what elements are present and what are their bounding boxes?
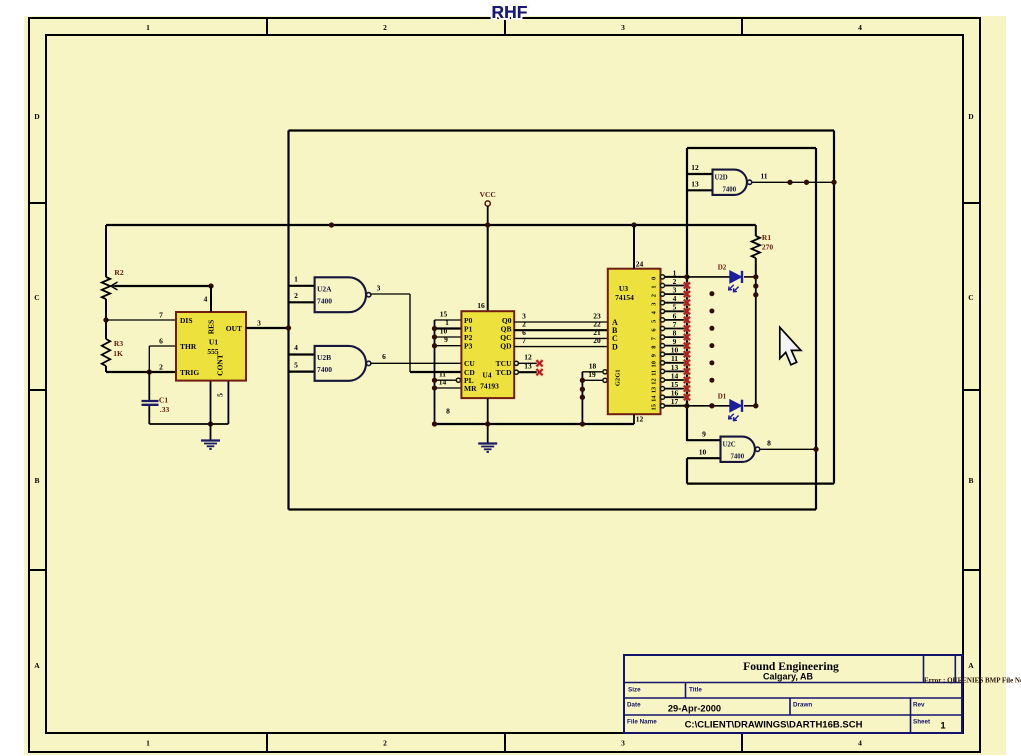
wire pin16 vertical: [487, 225, 489, 311]
svg-text:8: 8: [651, 345, 658, 348]
nand gate U2B: [315, 346, 366, 381]
svg-text:OUT: OUT: [226, 324, 242, 333]
svg-text:TCU: TCU: [496, 359, 512, 368]
svg-text:555: 555: [207, 347, 219, 356]
wire P1 pin1: [435, 327, 462, 329]
wire U2B input pin5: [289, 371, 315, 373]
decoder U3 74154 body: [608, 269, 661, 415]
wire U2C input pin10: [687, 457, 721, 459]
no-connect X TCU: [536, 360, 542, 366]
svg-text:29-Apr-2000: 29-Apr-2000: [668, 704, 721, 714]
svg-text:R1: R1: [762, 233, 771, 242]
svg-text:D: D: [968, 112, 974, 121]
svg-text:14: 14: [651, 395, 658, 402]
svg-text:C: C: [34, 293, 39, 302]
svg-text:Sheet: Sheet: [913, 719, 931, 726]
svg-text:3: 3: [621, 739, 625, 748]
svg-text:4: 4: [294, 343, 298, 352]
svg-text:1: 1: [146, 23, 150, 32]
svg-text:.33: .33: [160, 405, 170, 414]
svg-text:Date: Date: [627, 702, 641, 709]
svg-text:P2: P2: [464, 333, 473, 342]
svg-text:5: 5: [216, 393, 225, 397]
svg-text:D: D: [34, 112, 40, 121]
wire LED column vertical: [755, 277, 757, 406]
resistor R3: [102, 339, 110, 366]
svg-text:2: 2: [383, 23, 387, 32]
wire feedback bottom horizontal: [687, 483, 834, 485]
zone ticks bottom: [266, 733, 268, 752]
wire QC to C: [514, 337, 608, 339]
svg-text:RES: RES: [207, 320, 216, 335]
svg-text:8: 8: [446, 407, 450, 416]
mouse cursor: [780, 327, 801, 365]
wire P0 pin15: [435, 319, 462, 321]
svg-text:D: D: [612, 342, 618, 351]
nand gate U2C: [721, 437, 755, 462]
no-connect X marks U3 outputs: [684, 282, 690, 288]
svg-text:G2: G2: [615, 378, 622, 386]
svg-text:C: C: [968, 293, 973, 302]
svg-text:3: 3: [377, 284, 381, 293]
wire U2B input pin4: [289, 353, 315, 355]
wire THR pin6: [149, 345, 176, 347]
nand gate U2A: [315, 277, 366, 312]
svg-text:4: 4: [858, 23, 862, 32]
wire U2C input pin9: [687, 439, 721, 441]
svg-text:5: 5: [651, 320, 658, 323]
svg-text:4: 4: [204, 295, 208, 304]
svg-text:20: 20: [593, 336, 601, 345]
wire U3 pin24 vcc: [633, 225, 635, 269]
node R2 wiper junction: [208, 283, 213, 288]
svg-text:13: 13: [524, 362, 532, 371]
wire TRIG to C1: [148, 372, 150, 400]
svg-text:U2B: U2B: [317, 353, 331, 362]
svg-text:Rev: Rev: [913, 702, 925, 709]
svg-text:QC: QC: [500, 333, 511, 342]
svg-text:U2C: U2C: [723, 441, 736, 448]
svg-text:0: 0: [651, 277, 658, 280]
wire U2A output net 3: [371, 293, 410, 295]
svg-text:C1: C1: [159, 396, 168, 405]
svg-text:16: 16: [477, 301, 485, 310]
wire Q0 to A: [514, 321, 608, 323]
ground symbol U4: [478, 442, 497, 444]
svg-text:10: 10: [699, 448, 707, 457]
wire U2A input pin2: [289, 301, 315, 303]
svg-text:P3: P3: [464, 342, 473, 351]
svg-text:QD: QD: [500, 342, 512, 351]
wire gnd rail: [435, 423, 635, 425]
svg-text:1: 1: [940, 721, 946, 732]
ellipsis dots between LEDs: [709, 291, 714, 296]
svg-text:1: 1: [651, 285, 658, 288]
U4 PL bubble: [456, 378, 460, 382]
node U3 pin1 junction: [684, 274, 689, 279]
svg-text:11: 11: [760, 172, 767, 181]
wire R2 to RES pin4: [115, 285, 211, 287]
svg-text:6: 6: [159, 337, 163, 346]
svg-text:7: 7: [522, 336, 526, 345]
svg-text:VCC: VCC: [480, 190, 496, 199]
wire big loop top: [289, 129, 835, 131]
svg-text:U3: U3: [619, 284, 628, 293]
wire U2D input pin12: [687, 173, 713, 175]
svg-text:7400: 7400: [317, 365, 332, 374]
svg-text:7400: 7400: [731, 453, 745, 460]
svg-text:THR: THR: [180, 342, 197, 351]
wire R3 to TRIG: [105, 366, 107, 372]
wire U2C output net 8: [761, 448, 817, 450]
svg-text:Title: Title: [689, 687, 702, 694]
svg-text:CU: CU: [464, 359, 475, 368]
node D1 junction: [753, 403, 758, 408]
node D2 junctions: [753, 274, 758, 279]
title block small box: [923, 655, 925, 683]
svg-text:3: 3: [257, 319, 261, 328]
node U3 pin17 junction: [684, 403, 689, 408]
svg-text:C:\CLIENT\DRAWINGS\DARTH16B.SC: C:\CLIENT\DRAWINGS\DARTH16B.SCH: [685, 720, 863, 731]
wire inner top horizontal: [687, 147, 816, 149]
svg-text:2: 2: [294, 291, 298, 300]
LED D2: [730, 271, 742, 283]
node net11 junctions: [787, 180, 792, 185]
zone ticks right: [963, 202, 980, 204]
wire C1 bottom: [148, 406, 150, 424]
svg-text:2: 2: [383, 739, 387, 748]
svg-text:CONT: CONT: [216, 354, 225, 376]
svg-text:U2A: U2A: [317, 285, 332, 294]
svg-text:7: 7: [159, 311, 163, 320]
wire TCD pin13: [514, 370, 518, 374]
title block frame: [624, 655, 962, 733]
U3 output pins: [651, 268, 687, 280]
svg-text:11: 11: [651, 370, 658, 376]
ground symbol 555: [201, 439, 220, 441]
svg-text:2: 2: [651, 294, 658, 297]
wire OUT pin3: [246, 327, 289, 329]
svg-text:R2: R2: [114, 268, 123, 277]
svg-text:B: B: [34, 476, 39, 485]
svg-text:12: 12: [691, 163, 699, 172]
svg-text:R3: R3: [114, 339, 123, 348]
svg-text:9: 9: [651, 354, 658, 357]
timer U1 555 body: [176, 312, 246, 381]
svg-text:MR: MR: [464, 384, 477, 393]
svg-text:4: 4: [858, 739, 862, 748]
counter U4 74193 body: [461, 311, 514, 398]
node net8 junction: [813, 447, 818, 452]
VCC power symbol: [485, 201, 490, 206]
svg-text:7400: 7400: [723, 186, 737, 193]
svg-text:A: A: [34, 661, 40, 670]
svg-text:1: 1: [294, 275, 298, 284]
wire U3 pin17 to D1: [687, 405, 730, 407]
node preset bus junctions: [432, 326, 437, 331]
svg-text:D2: D2: [718, 264, 727, 272]
svg-text:G1: G1: [615, 369, 622, 377]
svg-text:2: 2: [159, 363, 163, 372]
svg-text:A: A: [968, 661, 974, 670]
svg-text:U1: U1: [209, 338, 218, 347]
svg-text:12: 12: [651, 378, 658, 384]
svg-text:6: 6: [382, 352, 386, 361]
svg-text:19: 19: [588, 370, 596, 379]
svg-text:Drawn: Drawn: [793, 702, 812, 709]
svg-text:RHF: RHF: [492, 2, 528, 22]
node bus junctions: [329, 222, 334, 227]
svg-text:17: 17: [671, 397, 679, 406]
node OUT junction: [286, 325, 291, 330]
svg-text:Error : QUEENIES BMP File No: Error : QUEENIES BMP File No: [924, 677, 1021, 685]
svg-text:U4: U4: [482, 370, 491, 379]
svg-text:14: 14: [439, 378, 447, 387]
nand gate U2D: [713, 170, 747, 195]
wire gnd stub: [210, 424, 212, 440]
svg-text:9: 9: [444, 335, 448, 344]
wire big loop bottom: [289, 508, 817, 510]
svg-text:DIS: DIS: [180, 316, 193, 325]
svg-text:74193: 74193: [480, 381, 499, 390]
wire P2 pin10: [435, 336, 462, 338]
svg-text:12: 12: [636, 415, 644, 424]
wire DIS pin7: [106, 319, 176, 321]
wire G1 pin18: [582, 371, 603, 373]
svg-text:5: 5: [294, 361, 298, 370]
svg-text:18: 18: [589, 361, 597, 370]
capacitor C1: [142, 400, 159, 402]
svg-text:1: 1: [146, 739, 150, 748]
wire U2D input pin13: [687, 189, 713, 191]
wire U2B output net 6: [371, 362, 462, 364]
wire 555 gnd pin: [210, 381, 212, 424]
svg-text:8: 8: [767, 439, 771, 448]
wire MR pin14: [435, 387, 462, 389]
wire P3 pin9: [435, 345, 462, 347]
wire U2D output net 11: [753, 181, 835, 183]
svg-text:24: 24: [636, 260, 644, 269]
svg-text:D1: D1: [718, 392, 727, 400]
svg-text:13: 13: [691, 180, 699, 189]
wire CONT pin5: [227, 381, 229, 424]
R2 wiper arrow: [112, 285, 119, 287]
svg-text:TCD: TCD: [496, 368, 512, 377]
wire VCC bus horizontal: [106, 224, 756, 226]
wire U3 pin1 to D2: [687, 276, 730, 278]
wire QB to B: [514, 329, 608, 331]
resistor R1: [755, 225, 757, 236]
svg-text:File Name: File Name: [627, 719, 657, 726]
wire big loop left vertical: [287, 131, 289, 510]
svg-text:270: 270: [762, 243, 774, 252]
svg-text:3: 3: [621, 23, 625, 32]
wire QD to D: [514, 346, 608, 348]
svg-text:9: 9: [702, 430, 706, 439]
svg-text:Size: Size: [628, 687, 641, 694]
svg-text:10: 10: [651, 361, 658, 367]
svg-text:Calgary, AB: Calgary, AB: [763, 672, 814, 682]
node TRIG junction: [147, 369, 152, 374]
svg-text:12: 12: [524, 353, 532, 362]
zone ticks left: [29, 202, 46, 204]
wire U3 pin12 gnd: [633, 414, 635, 424]
zone ticks top: [266, 18, 268, 35]
node GND junction: [208, 421, 213, 426]
svg-text:TRIG: TRIG: [180, 368, 199, 377]
wire U2A input pin1: [289, 285, 315, 287]
resistor R2: [102, 277, 110, 299]
LED D1: [730, 400, 742, 412]
no-connect X TCD: [536, 369, 542, 375]
node DIS junction: [103, 317, 108, 322]
wire big loop right vertical: [833, 131, 835, 484]
svg-text:7400: 7400: [317, 296, 332, 305]
svg-text:B: B: [968, 476, 973, 485]
wire inner left vertical: [686, 148, 688, 441]
svg-text:15: 15: [651, 404, 658, 410]
wire R2 to R3: [105, 299, 107, 339]
wire G enable to gnd: [581, 372, 583, 424]
svg-text:3: 3: [651, 303, 658, 306]
wire bus to R2: [105, 225, 107, 277]
svg-text:13: 13: [651, 387, 658, 393]
wire G2 pin19: [582, 379, 603, 381]
wire PL pin11: [435, 379, 457, 381]
wire RES pin4 vertical: [210, 286, 212, 312]
wire inner right vertical: [815, 148, 817, 510]
svg-text:U2D: U2D: [715, 174, 728, 181]
wire TCU pin12: [514, 361, 518, 365]
U4 bottom pin8: [487, 398, 489, 443]
wire U4 preset bus vertical: [434, 320, 436, 424]
svg-text:1K: 1K: [113, 349, 123, 358]
svg-text:74154: 74154: [615, 293, 634, 302]
wire VCC stub: [487, 206, 489, 225]
